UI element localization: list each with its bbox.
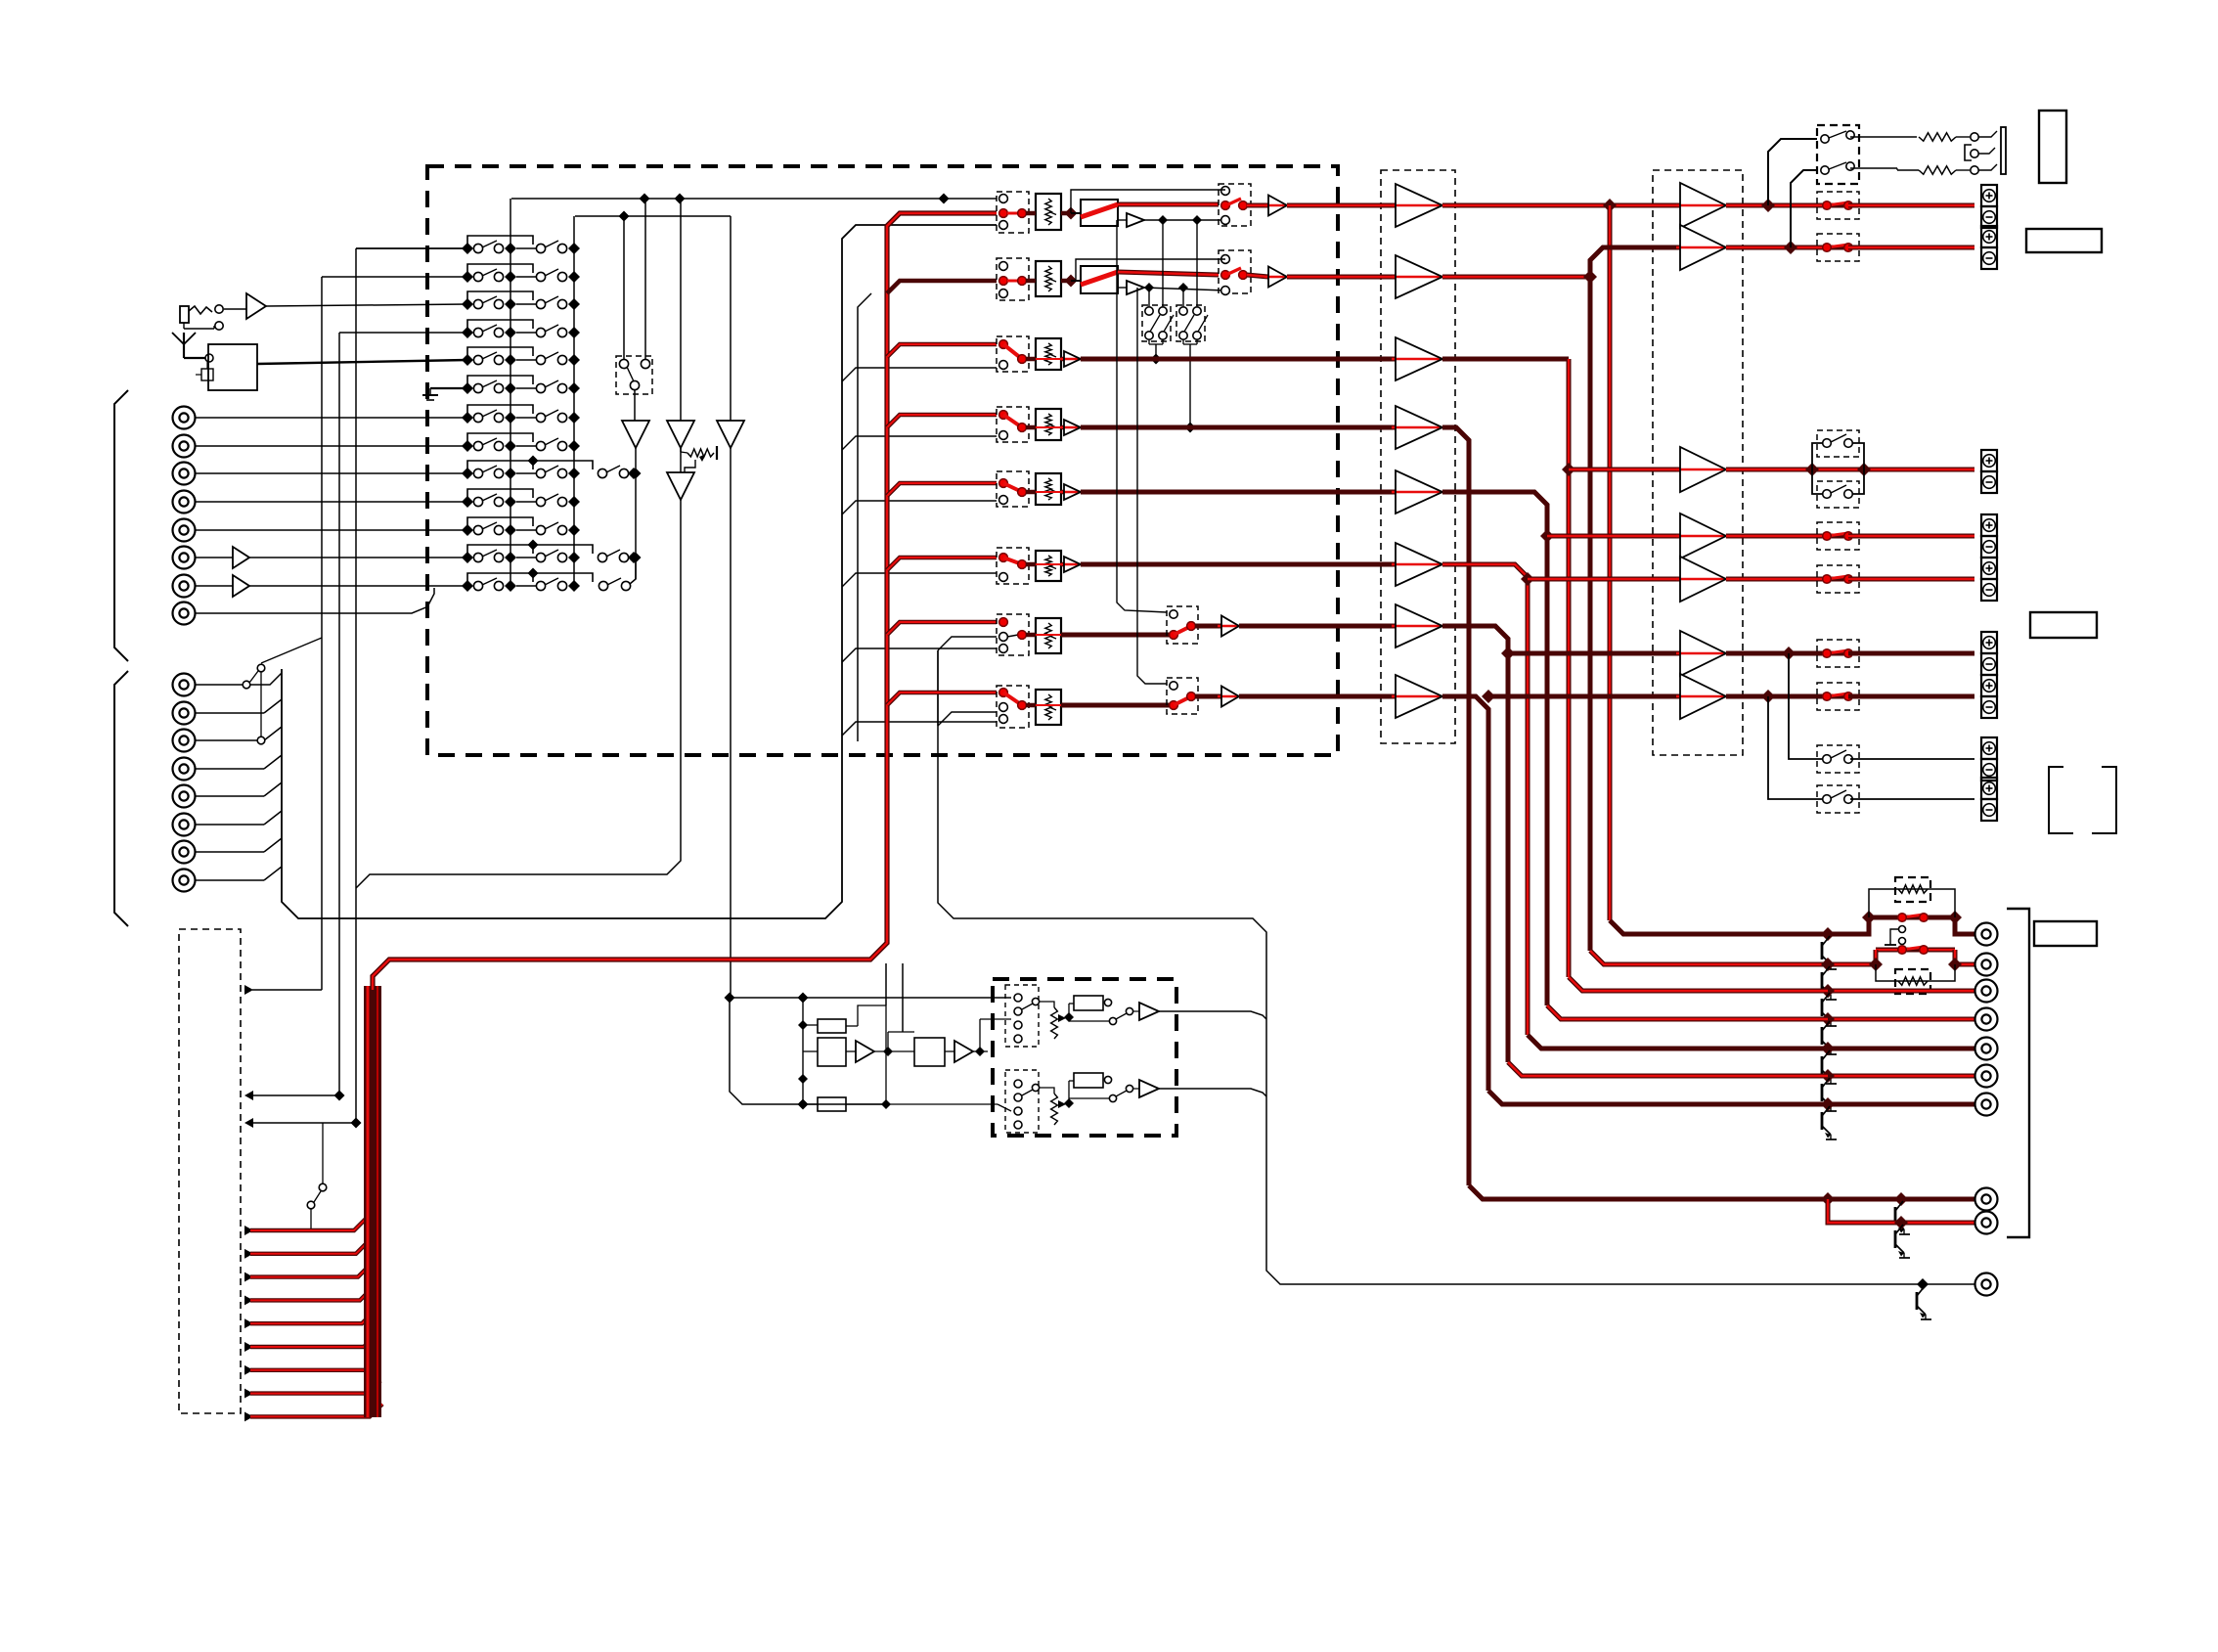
dsp input verticals xyxy=(886,963,903,1032)
wire row340 xyxy=(339,332,467,334)
power amp 2 xyxy=(1676,225,1726,270)
red wire amp out SL xyxy=(1726,534,1827,539)
buffer V2 (down) xyxy=(667,421,694,448)
RCA input jack A3 xyxy=(173,463,196,485)
sub-out jack SW1 xyxy=(1975,1188,1998,1211)
red wire branch amp6 xyxy=(1508,651,1680,656)
ribbon connector block (dashed) xyxy=(179,929,241,1413)
ribbon in arrow 1 xyxy=(244,1091,345,1101)
red wire vol4 input xyxy=(887,415,997,427)
pre-out jack SBL xyxy=(1975,1065,1998,1088)
buffer amp 7 xyxy=(1392,604,1442,647)
selector switch row y254 xyxy=(462,236,580,254)
speaker switch FL (dashed) xyxy=(1817,192,1859,219)
RCA input jack A2 xyxy=(173,435,196,458)
power amp 1 xyxy=(1676,183,1726,228)
wire jack A5 xyxy=(196,529,467,531)
power amplifier block (dashed) xyxy=(1653,170,1743,755)
headphone feed wires xyxy=(1768,139,1817,247)
red wire relay2 to rec-switch xyxy=(1118,272,1219,275)
selector bus 2 xyxy=(573,216,575,586)
volume block 2 (dashed) xyxy=(997,258,1029,300)
pre-out wire SR xyxy=(1821,1042,1974,1055)
buffer V4 (down) xyxy=(667,472,694,500)
dsp filter 2 xyxy=(803,1097,1011,1111)
selector bus 1 xyxy=(510,199,511,586)
dsp in wire 2 xyxy=(730,998,886,1110)
headphone resistor R xyxy=(1850,166,1970,174)
wire row254 xyxy=(356,247,467,249)
speaker terminal BR xyxy=(1981,778,1997,821)
power amp 4 xyxy=(1676,513,1726,558)
wire jack A3 xyxy=(196,472,467,474)
power amp 3 xyxy=(1676,447,1726,492)
wire jack A2 xyxy=(196,445,467,447)
red wire vol8 input xyxy=(887,692,997,705)
wire tape-out A xyxy=(356,448,681,888)
grounded input row397 xyxy=(422,388,467,400)
dsp level pot 1 xyxy=(1040,1002,1074,1039)
pre-out feed SR xyxy=(1528,1035,1828,1049)
buffer amp 2 xyxy=(1392,255,1442,298)
line amp 1 xyxy=(1247,196,1287,216)
record tap line L1 xyxy=(511,194,997,204)
input group bracket B xyxy=(114,671,128,926)
wires row2 to monitor sw xyxy=(1149,288,1183,306)
buffer amplifier block (dashed) xyxy=(1381,170,1455,743)
speaker terminal FR xyxy=(1981,226,1997,269)
wire monitor B xyxy=(858,293,871,741)
red wire row8 to buffer xyxy=(1239,694,1396,699)
red wire row2 to buffer xyxy=(1287,275,1396,280)
speaker switch SR (dashed) xyxy=(1817,565,1859,593)
direct switch 7 (dashed) xyxy=(1167,606,1198,644)
red wire row5 to buffer xyxy=(1081,490,1396,495)
mute transistor SL xyxy=(1822,1021,1837,1054)
mute transistor FL xyxy=(1822,936,1837,969)
RCA input jack B8 xyxy=(173,870,196,892)
red wire amp out SBR xyxy=(1726,690,1827,703)
wire jack B4 xyxy=(196,755,282,769)
selector aux switch y484 xyxy=(598,466,640,479)
dsp DAC 1 xyxy=(803,1038,846,1066)
ribbon red wire 4 xyxy=(244,1287,373,1305)
record tap line L2 xyxy=(575,211,731,222)
zone wire + mute transistor xyxy=(938,650,1974,1319)
wire to V2 xyxy=(680,199,682,421)
relay coil xyxy=(1885,926,1906,950)
pre-out feed C xyxy=(1569,977,1828,991)
sub-out wire 1 xyxy=(1469,1185,1974,1206)
pre-out feed SBR xyxy=(1488,1091,1828,1104)
speaker switch BL (dashed) xyxy=(1817,745,1859,773)
pre-out wire FR xyxy=(1590,950,1974,971)
volume resistor 2 xyxy=(1026,261,1078,296)
speaker terminal SBL xyxy=(1981,632,1997,675)
mute transistor SW2 xyxy=(1895,1225,1910,1258)
volume resistor 7 xyxy=(1026,618,1061,653)
relay resistor 1 (dashed) xyxy=(1895,877,1930,902)
ribbon red wire 6 xyxy=(244,1334,377,1352)
monitor wire to vol8 xyxy=(842,722,997,736)
RCA input jack B7 xyxy=(173,841,196,864)
selector aux switch y599 xyxy=(599,559,636,591)
speaker switch FR (dashed) xyxy=(1817,234,1859,261)
buffer V1 (down) xyxy=(622,389,649,579)
selector switch row y542 xyxy=(462,517,580,536)
dsp out amp 2 xyxy=(1132,1080,1266,1097)
relay resistor 2 (dashed) xyxy=(1895,969,1930,994)
ribbon red wire 9 xyxy=(244,1404,382,1421)
RCA input jack B1 xyxy=(173,674,196,696)
volume resistor 4 xyxy=(1026,409,1064,440)
red wire relay1 to rec-switch xyxy=(1118,202,1219,207)
speaker terminal SL xyxy=(1981,514,1997,558)
red wire amp2 out xyxy=(1726,241,1827,254)
pre-out wire FL xyxy=(1610,917,1974,941)
dsp level pot 2 xyxy=(1040,1088,1074,1125)
wire jack B1 xyxy=(196,684,246,686)
red wire center branch xyxy=(1569,468,1680,472)
ribbon out arrow xyxy=(244,985,322,995)
wire to terminal BR xyxy=(1850,798,1974,800)
pre-out wire SL xyxy=(1821,1012,1974,1026)
relay 1 xyxy=(1071,200,1118,226)
RCA input jack B3 xyxy=(173,730,196,752)
red wire R-front up-branch xyxy=(1590,247,1680,277)
monitor stub y376 xyxy=(842,368,997,381)
volume resistor 1 xyxy=(1026,194,1078,230)
red wire to terminal SL xyxy=(1848,534,1974,539)
wire speaker B L xyxy=(1789,653,1825,759)
selector switch row y427 xyxy=(462,405,580,424)
ribbon red wire 8 xyxy=(244,1381,380,1399)
buffer amp 3 xyxy=(1392,337,1442,380)
dsp switch 2 xyxy=(1069,1085,1133,1101)
power amp 5 xyxy=(1676,557,1726,602)
pot wiper wire xyxy=(685,460,695,472)
DSP processor block (dashed) xyxy=(993,979,1176,1136)
wire jack B7 xyxy=(196,838,282,852)
wire jack A1 xyxy=(196,417,467,419)
buffer amp 5 xyxy=(1392,470,1442,513)
mode switch (dashed) xyxy=(616,356,652,394)
wire jack B8 xyxy=(196,867,282,880)
ribbon in arrow 2 xyxy=(244,1118,362,1129)
wires row1 to monitor sw xyxy=(1163,220,1197,306)
dsp relay 2 xyxy=(1069,1073,1112,1103)
mute transistor SBR xyxy=(1822,1106,1837,1139)
label box 1 xyxy=(2039,111,2066,183)
pre-out relay row 2 xyxy=(1876,946,1955,955)
monitor wire to vol7 xyxy=(842,648,997,662)
red wire amp3 out xyxy=(1726,463,1974,476)
selector switch row y311 xyxy=(462,291,580,310)
speaker switch BR (dashed) xyxy=(1817,785,1859,813)
line amp 7 xyxy=(1195,616,1239,637)
dsp wires a xyxy=(888,1019,1011,1051)
relay resistor loop 1 xyxy=(1869,889,1955,917)
monitor amp 2 xyxy=(1118,281,1225,294)
volume pot xyxy=(681,446,717,462)
monitor stub y651 xyxy=(938,637,997,650)
pre-out feed SL xyxy=(1547,1005,1828,1019)
red wire branch amp4 xyxy=(1547,534,1680,539)
selector aux switch y570 xyxy=(598,550,640,563)
wire jack B5 xyxy=(196,782,282,796)
dsp left bus xyxy=(798,998,808,1104)
RCA input jack A8 xyxy=(173,603,196,625)
red wire L-front to power amp xyxy=(1442,199,1680,212)
line amp 4 xyxy=(1060,420,1081,435)
record select switch xyxy=(243,638,322,744)
headphone switch (dashed) xyxy=(1817,125,1859,184)
ribbon mute switch xyxy=(307,1123,327,1230)
label box 3 xyxy=(2030,612,2097,638)
speaker switch SL (dashed) xyxy=(1817,522,1859,550)
volume resistor 5 xyxy=(1026,473,1064,505)
monitor stub y586 xyxy=(842,573,997,587)
RCA input jack A5 xyxy=(173,519,196,542)
dsp in wire 1 xyxy=(725,993,1012,1004)
red wire branch amp5 xyxy=(1528,577,1680,582)
relay resistor loop 2 xyxy=(1876,964,1955,981)
wire jack B3 xyxy=(196,727,282,740)
input group bracket A xyxy=(114,390,128,661)
dsp switch 1 xyxy=(1069,1007,1133,1024)
red wire row4 to buffer xyxy=(1081,425,1396,430)
monitor amp 1 xyxy=(1118,213,1225,227)
selector switch row y570 xyxy=(462,540,593,564)
RCA input jack A1 xyxy=(173,407,196,429)
pre-out wire SBR xyxy=(1821,1097,1974,1111)
volume block 1 (dashed) xyxy=(997,192,1029,233)
wire jack A7 xyxy=(196,575,467,597)
record tap 1 xyxy=(1071,190,1225,213)
red wire L-front down-feed xyxy=(1608,205,1613,920)
mute transistor FR xyxy=(1822,966,1837,1000)
selector switch row y599 xyxy=(462,568,593,593)
speaker switch SBL (dashed) xyxy=(1817,640,1859,667)
pre-out jack SL xyxy=(1975,1008,1998,1031)
sub-out jack SW2 xyxy=(1975,1212,1998,1234)
buffer amp 6 xyxy=(1392,543,1442,586)
mute transistor SW1 xyxy=(1895,1201,1910,1234)
sub-out wire 2 xyxy=(1828,1199,1974,1229)
monitor select switch bank 1 (dashed) xyxy=(1142,305,1174,341)
red wire row7 to buffer xyxy=(1239,624,1396,629)
selector switch row y340 xyxy=(462,320,580,338)
RCA input jack B6 xyxy=(173,814,196,836)
red wire back R xyxy=(1442,626,1515,1062)
wire to terminal BL xyxy=(1850,758,1974,760)
pre-out feed SBL xyxy=(1508,1062,1828,1076)
red wire vol5 input xyxy=(887,483,997,496)
microphone jack xyxy=(180,305,223,330)
dsp filter 1 xyxy=(803,1005,886,1033)
wire B1 to bus xyxy=(250,673,282,685)
line amp 8 xyxy=(1195,687,1239,707)
tuner xyxy=(208,344,257,390)
red wire row3 to buffer xyxy=(1081,357,1396,362)
dsp amp 2 xyxy=(945,1041,988,1062)
dsp input selector 2 (dashed) xyxy=(1005,1070,1040,1133)
monitor sw1 to row3 xyxy=(1149,339,1163,365)
selector switch row y456 xyxy=(462,433,580,452)
pre-out wire SBL xyxy=(1821,1069,1974,1083)
red wire vol2 input xyxy=(887,281,997,293)
buffer amp 4 xyxy=(1392,406,1442,449)
wire jack A8 xyxy=(196,588,434,613)
red wire center xyxy=(1442,359,1575,977)
input selector block (dashed) xyxy=(427,166,1338,755)
red wire to terminal SBL xyxy=(1848,651,1974,656)
main red bus xyxy=(373,213,997,990)
mute transistor SR xyxy=(1822,1050,1837,1084)
power amp 7 xyxy=(1676,674,1726,719)
red wire back L xyxy=(1442,564,1534,1035)
ribbon red wire 5 xyxy=(244,1311,375,1328)
input bus B xyxy=(282,225,997,918)
wire row283 xyxy=(322,276,467,278)
bus wire x329 xyxy=(321,277,323,990)
speaker terminal SR xyxy=(1981,558,1997,601)
speaker terminal C xyxy=(1981,450,1997,493)
red wire R-front to power amp xyxy=(1442,270,1597,284)
buffer amp 1 xyxy=(1392,184,1442,227)
FM antenna xyxy=(172,333,213,362)
buffer V3 (down) xyxy=(717,421,744,448)
RCA input jack B5 xyxy=(173,785,196,808)
red wire R-front down-feed xyxy=(1588,277,1593,951)
line amp 2 xyxy=(1247,267,1287,288)
wire jack B2 xyxy=(196,699,282,713)
bypass switch C2 (dashed) xyxy=(1817,481,1859,508)
monitor stub y728 xyxy=(938,650,997,726)
red wire row6 to buffer xyxy=(1081,562,1396,567)
wire jack A4 xyxy=(196,501,467,503)
RCA input jack A4 xyxy=(173,491,196,513)
wire speaker B R xyxy=(1768,696,1825,799)
volume block 8 (dashed) xyxy=(997,686,1029,728)
speaker switch SBR (dashed) xyxy=(1817,683,1859,710)
wire to V3 xyxy=(730,216,732,421)
pre-out jack FR xyxy=(1975,954,1998,976)
selector switch row y283 xyxy=(462,264,580,283)
label box pre-out xyxy=(2034,921,2097,946)
zone out jack xyxy=(1975,1273,1998,1296)
volume resistor 3 xyxy=(1026,338,1064,370)
pre-out jack C xyxy=(1975,980,1998,1003)
red wire amp1 out xyxy=(1726,199,1827,212)
red wire row8 mid xyxy=(1061,703,1174,708)
record switch 1 (dashed) xyxy=(1219,184,1251,226)
wire to aux sw a xyxy=(644,199,646,360)
wire jack B6 xyxy=(196,811,282,825)
monitor stub y446 xyxy=(842,436,997,450)
pre-out jack SR xyxy=(1975,1038,1998,1060)
bus wire x364 xyxy=(355,248,357,1123)
volume resistor 6 xyxy=(1026,551,1064,581)
RCA input jack B2 xyxy=(173,702,196,725)
red wire surround L xyxy=(1442,427,1469,1185)
headphone jack xyxy=(1965,127,2006,174)
pre-out relay row 1 xyxy=(1862,911,1962,924)
red wire to terminal SR xyxy=(1848,577,1974,582)
headphone resistor L xyxy=(1850,133,1970,141)
volume block 6 (dashed) xyxy=(997,548,1029,584)
monitor select switch bank 2 (dashed) xyxy=(1176,305,1208,341)
mic amplifier + wire xyxy=(224,293,467,319)
ribbon red wire 1 xyxy=(244,1218,367,1235)
label box 2 xyxy=(2026,229,2102,252)
RCA input jack A6 xyxy=(173,547,196,569)
dsp relay 1 xyxy=(1069,996,1112,1017)
RCA input jack A7 xyxy=(173,575,196,598)
dsp DAC 2 xyxy=(914,1038,945,1066)
red wire vol7 input xyxy=(887,622,997,635)
red wire to terminal FR xyxy=(1848,246,1974,250)
selector switch row y513 xyxy=(462,489,580,508)
speaker terminal FL xyxy=(1981,185,1997,228)
bypass switch C1 (dashed) xyxy=(1817,430,1859,457)
selector switch row y368 xyxy=(462,347,580,366)
red wire amp out SBL xyxy=(1726,647,1827,660)
line amp 3 xyxy=(1060,351,1081,367)
wire V3 to DSP xyxy=(730,448,732,998)
relay 2 xyxy=(1071,266,1118,293)
mute transistor SBL xyxy=(1822,1078,1837,1111)
red wire zone xyxy=(1442,690,1495,1091)
speaker terminal SBR xyxy=(1981,675,1997,718)
dsp amp 1 xyxy=(846,1041,914,1062)
wire to aux sw b xyxy=(623,216,625,360)
wire jack A6 xyxy=(196,547,467,568)
selector switch row y397 xyxy=(462,376,580,394)
ribbon red wire 7 xyxy=(244,1358,378,1375)
mute transistor C xyxy=(1822,993,1837,1026)
volume block 3 (dashed) xyxy=(997,336,1029,372)
speaker terminal BL xyxy=(1981,737,1997,781)
ribbon red bundle xyxy=(368,986,377,1417)
tuner ground stub xyxy=(196,362,213,380)
monitor sw2 to row4 xyxy=(1183,339,1197,433)
red wire amp out SR xyxy=(1726,577,1827,582)
line amp 5 xyxy=(1060,484,1081,500)
pre-out jack SBR xyxy=(1975,1094,1998,1116)
record tap 2 xyxy=(1076,259,1225,281)
red wire vol6 input xyxy=(887,558,997,570)
red wire to terminal SBR xyxy=(1848,694,1974,699)
red wire branch amp7 xyxy=(1488,694,1680,699)
red wire surround R xyxy=(1442,492,1554,1005)
selector switch row y484 xyxy=(462,456,593,480)
bus wire x347 xyxy=(338,333,340,1095)
pre-out jack FL xyxy=(1975,923,1998,946)
line amp 6 xyxy=(1060,557,1081,572)
volume resistor 8 xyxy=(1026,690,1061,725)
volume block 4 (dashed) xyxy=(997,407,1029,442)
power amp 6 xyxy=(1676,631,1726,676)
dsp input selector 1 (dashed) xyxy=(1005,985,1040,1047)
bypass wires C xyxy=(1812,443,1864,494)
volume block 5 (dashed) xyxy=(997,471,1029,507)
monitor wire to direct sw 8 xyxy=(1137,288,1167,684)
volume block 7 (dashed) xyxy=(997,614,1029,655)
pre-out wire C xyxy=(1821,984,1974,998)
record switch 2 (dashed) xyxy=(1219,250,1251,294)
red wire to terminal FL xyxy=(1848,203,1974,208)
